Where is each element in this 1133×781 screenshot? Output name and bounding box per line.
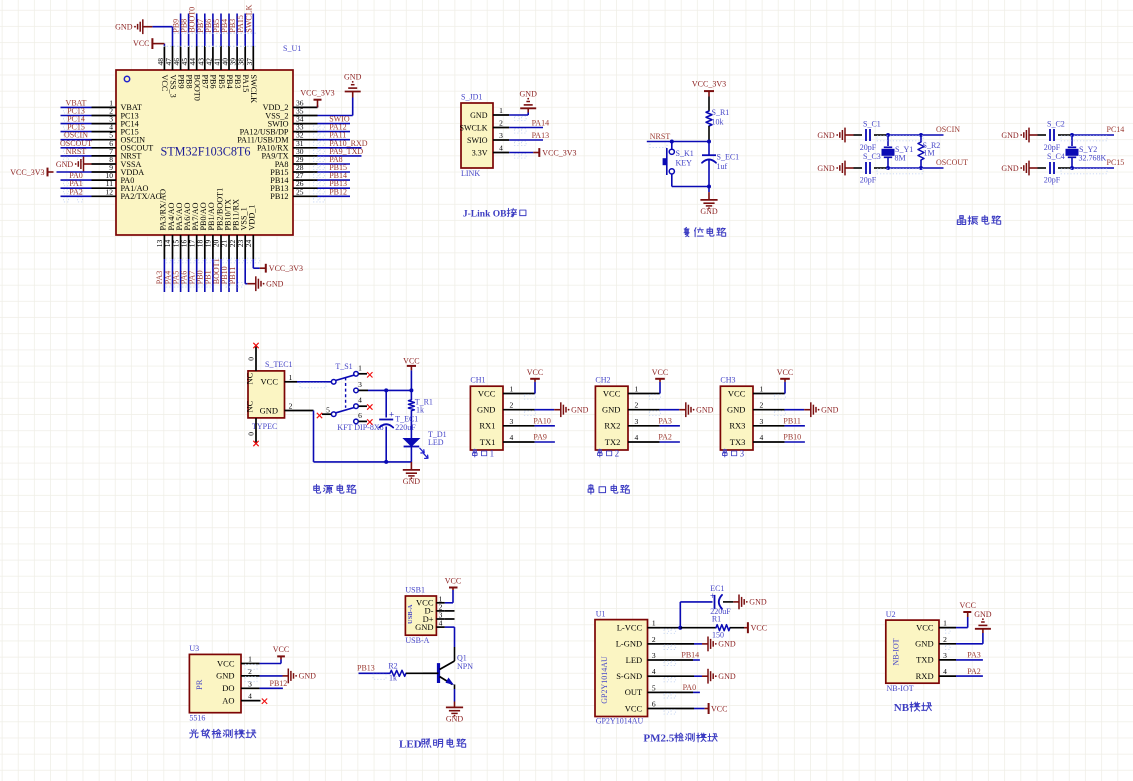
svg-text:VCC: VCC [478,388,496,398]
svg-text:S_C1: S_C1 [863,120,881,129]
svg-text:2: 2 [510,401,514,410]
svg-text:VCC: VCC [133,39,149,48]
svg-text:PB5: PB5 [217,75,226,89]
svg-text:25: 25 [296,187,304,196]
svg-text:EC1: EC1 [710,584,724,593]
svg-text:PA2/TX/AO: PA2/TX/AO [121,192,162,201]
svg-text:2: 2 [499,119,503,128]
svg-text:6: 6 [358,411,362,420]
svg-text:PB12: PB12 [270,192,288,201]
svg-text:TX2: TX2 [605,437,621,447]
svg-text:VSS_3: VSS_3 [168,75,177,98]
svg-text:VCC_3V3: VCC_3V3 [269,264,303,273]
svg-text:VCC: VCC [160,75,169,92]
svg-text:S_U1: S_U1 [283,44,301,53]
svg-text:20pF: 20pF [860,143,877,152]
svg-text:BOOT0: BOOT0 [193,75,202,101]
svg-text:SWIO: SWIO [467,136,488,145]
svg-text:2: 2 [248,667,252,676]
svg-text:PC15: PC15 [1107,158,1125,167]
svg-text:GND: GND [415,622,433,632]
svg-text:RX1: RX1 [479,421,495,431]
svg-text:220uF: 220uF [710,607,731,616]
svg-text:1: 1 [510,385,514,394]
svg-text:GND: GND [1001,131,1019,140]
svg-text:32.768K: 32.768K [1079,153,1107,162]
svg-text:NRST: NRST [66,147,87,156]
svg-text:NPN: NPN [457,662,473,671]
svg-text:GND: GND [470,111,488,120]
svg-text:GND: GND [718,672,736,681]
svg-text:GND: GND [602,405,620,415]
svg-text:VCC: VCC [777,368,793,377]
svg-text:4: 4 [499,144,503,153]
svg-text:PA9: PA9 [533,433,547,442]
svg-text:2: 2 [289,402,293,411]
svg-text:J-Link OB: J-Link OB [463,210,507,220]
svg-text:GND: GND [974,610,992,619]
svg-text:GND: GND [718,640,736,649]
svg-text:TXD: TXD [916,655,933,665]
svg-text:PA2: PA2 [69,187,83,196]
svg-text:GND: GND [571,406,589,415]
svg-text:PB6: PB6 [209,75,218,89]
svg-text:LED: LED [399,739,422,751]
svg-text:3.3V: 3.3V [472,148,488,157]
svg-text:KEY: KEY [676,159,693,168]
svg-text:VDD_1: VDD_1 [248,205,257,231]
svg-text:KFT DIP-8X8: KFT DIP-8X8 [337,423,383,432]
svg-text:U2: U2 [886,610,896,619]
svg-text:GND: GND [727,405,745,415]
svg-text:1: 1 [943,619,947,628]
svg-text:GND: GND [446,714,464,723]
svg-text:1: 1 [760,385,764,394]
svg-text:VCC_3V3: VCC_3V3 [692,80,726,89]
svg-text:LED: LED [626,655,643,665]
svg-text:VCC: VCC [527,368,543,377]
svg-text:5: 5 [652,683,656,692]
svg-text:L-VCC: L-VCC [617,623,643,633]
svg-text:PB9: PB9 [176,75,185,89]
svg-text:GND: GND [344,73,362,82]
svg-text:1uf: 1uf [717,162,728,171]
svg-text:1: 1 [652,619,656,628]
svg-text:VCC_3V3: VCC_3V3 [300,89,334,98]
svg-text:PB13: PB13 [357,664,375,673]
svg-text:GND: GND [817,131,835,140]
svg-text:VCC: VCC [959,601,975,610]
svg-text:LED: LED [428,438,444,447]
svg-text:PB11: PB11 [783,417,801,426]
svg-text:PA3: PA3 [658,417,672,426]
svg-text:PA2: PA2 [967,667,981,676]
svg-text:PA3: PA3 [967,651,981,660]
svg-text:0: 0 [247,357,256,361]
svg-text:USB1: USB1 [405,586,425,595]
svg-text:PB3: PB3 [233,75,242,89]
svg-text:VCC: VCC [625,703,643,713]
svg-text:OSCIN: OSCIN [936,125,960,134]
svg-text:GND: GND [299,672,317,681]
svg-text:PB11: PB11 [228,267,237,285]
svg-text:3: 3 [635,417,639,426]
svg-text:12: 12 [106,187,114,196]
svg-text:1k: 1k [389,674,397,683]
svg-text:SWCLK: SWCLK [244,4,253,32]
svg-text:TX1: TX1 [480,437,496,447]
svg-text:GND: GND [403,477,421,486]
svg-text:CH2: CH2 [595,376,610,385]
svg-text:RX3: RX3 [729,421,745,431]
svg-text:GP2Y1014AU: GP2Y1014AU [600,656,609,704]
svg-text:LINK: LINK [461,169,480,178]
svg-text:VCC: VCC [217,658,235,668]
svg-text:3: 3 [358,380,362,389]
svg-text:VCC: VCC [711,704,727,713]
svg-text:RX2: RX2 [604,421,620,431]
svg-text:GND: GND [216,671,234,681]
svg-text:SWCLK: SWCLK [460,123,488,132]
svg-text:R2: R2 [388,662,397,671]
svg-text:PA10: PA10 [533,417,551,426]
svg-text:4: 4 [510,433,514,442]
svg-text:2: 2 [760,401,764,410]
svg-text:PB14: PB14 [681,651,699,660]
svg-text:4: 4 [635,433,639,442]
svg-text:AO: AO [222,696,234,706]
svg-text:3: 3 [652,651,656,660]
svg-text:NB-IOT: NB-IOT [892,638,901,665]
svg-text:PB8: PB8 [184,75,193,89]
svg-text:5516: 5516 [189,714,205,723]
svg-text:PB12: PB12 [329,187,347,196]
svg-text:1: 1 [635,385,639,394]
svg-text:GND: GND [817,164,835,173]
svg-text:1M: 1M [924,149,935,158]
svg-text:2: 2 [652,635,656,644]
svg-text:GP2Y1014AU: GP2Y1014AU [596,717,644,726]
svg-text:U3: U3 [189,644,199,653]
svg-text:GND: GND [696,406,714,415]
svg-text:3: 3 [760,417,764,426]
svg-text:10k: 10k [712,118,724,127]
svg-text:VCC: VCC [652,368,668,377]
svg-text:3: 3 [248,679,252,688]
svg-text:S_C4: S_C4 [1047,152,1065,161]
svg-text:T_S1: T_S1 [335,362,352,371]
svg-text:4: 4 [760,433,764,442]
svg-text:NC: NC [245,400,255,412]
svg-text:PA13: PA13 [532,131,550,140]
svg-text:PA15: PA15 [241,75,250,93]
svg-text:GND: GND [749,598,767,607]
svg-text:PB10: PB10 [783,433,801,442]
svg-text:PB12: PB12 [270,679,288,688]
svg-text:20pF: 20pF [1044,143,1061,152]
svg-text:VCC: VCC [403,356,419,365]
svg-text:150: 150 [712,631,724,640]
svg-text:S_JD1: S_JD1 [461,93,482,102]
svg-text:24: 24 [244,239,253,247]
svg-text:VCC: VCC [273,645,289,654]
svg-text:PM2.5: PM2.5 [643,733,674,745]
svg-text:CH3: CH3 [720,376,735,385]
svg-text:VCC: VCC [751,624,767,633]
svg-text:2: 2 [635,401,639,410]
svg-text:2: 2 [615,449,620,459]
svg-text:6: 6 [652,700,656,709]
svg-text:220uF: 220uF [395,423,416,432]
svg-text:OUT: OUT [625,687,643,697]
svg-text:1k: 1k [416,405,424,414]
svg-text:2: 2 [943,635,947,644]
svg-text:NB-IOT: NB-IOT [887,684,914,693]
svg-text:GND: GND [115,23,133,32]
svg-text:GND: GND [477,405,495,415]
svg-text:GND: GND [915,639,933,649]
svg-text:NC: NC [245,372,255,384]
svg-text:1: 1 [499,106,503,115]
svg-text:3: 3 [943,651,947,660]
svg-text:GND: GND [700,207,718,216]
svg-text:S_K1: S_K1 [676,149,694,158]
svg-text:S_C2: S_C2 [1047,120,1065,129]
svg-text:PA2: PA2 [658,433,672,442]
svg-text:DO: DO [222,683,234,693]
svg-text:1: 1 [490,449,495,459]
svg-text:4: 4 [358,396,362,405]
svg-text:USB-A: USB-A [405,636,429,645]
svg-text:3: 3 [740,449,745,459]
svg-text:GND: GND [1001,164,1019,173]
svg-text:PA0: PA0 [683,683,697,692]
svg-text:1: 1 [248,655,252,664]
svg-text:1: 1 [289,373,293,382]
svg-text:0: 0 [247,432,256,436]
svg-text:NB: NB [894,702,910,714]
svg-text:4: 4 [652,667,656,676]
svg-text:VCC: VCC [603,388,621,398]
svg-text:VCC: VCC [445,577,461,586]
svg-text:S_EC1: S_EC1 [717,153,740,162]
svg-text:PC14: PC14 [1107,125,1125,134]
svg-text:RXD: RXD [916,671,934,681]
svg-text:VCC: VCC [261,377,279,387]
svg-text:GND: GND [56,160,74,169]
svg-text:20pF: 20pF [860,176,877,185]
svg-text:S_C3: S_C3 [863,152,881,161]
svg-text:S_TEC1: S_TEC1 [265,360,293,369]
svg-text:3: 3 [499,131,503,140]
svg-text:VCC_3V3: VCC_3V3 [542,148,576,157]
svg-text:GND: GND [821,406,839,415]
svg-text:S_R1: S_R1 [712,108,730,117]
svg-text:USB-A: USB-A [407,604,414,624]
svg-text:L-GND: L-GND [616,639,642,649]
svg-text:VCC: VCC [728,388,746,398]
svg-text:OSCOUT: OSCOUT [936,158,968,167]
svg-text:8M: 8M [895,153,906,162]
svg-text:PA14: PA14 [532,119,550,128]
svg-text:GND: GND [260,405,278,415]
svg-text:4: 4 [248,692,252,701]
svg-text:4: 4 [943,667,947,676]
svg-text:20pF: 20pF [1044,176,1061,185]
svg-text:STM32F103C8T6: STM32F103C8T6 [160,145,250,159]
svg-text:5: 5 [326,405,330,414]
svg-text:U1: U1 [596,610,606,619]
svg-text:+: + [389,410,394,420]
svg-text:GND: GND [520,89,538,98]
svg-text:TX3: TX3 [730,437,746,447]
svg-text:CH1: CH1 [470,376,485,385]
svg-text:PR: PR [194,679,204,690]
svg-text:SWCLK: SWCLK [249,75,258,104]
svg-text:PB7: PB7 [201,75,210,89]
svg-text:GND: GND [266,280,284,289]
svg-text:3: 3 [510,417,514,426]
svg-text:1: 1 [358,363,362,372]
svg-text:S-GND: S-GND [616,671,642,681]
svg-text:VCC_3V3: VCC_3V3 [10,168,44,177]
svg-text:VCC: VCC [916,622,934,632]
svg-text:PB4: PB4 [225,75,234,89]
svg-text:NRST: NRST [650,132,671,141]
